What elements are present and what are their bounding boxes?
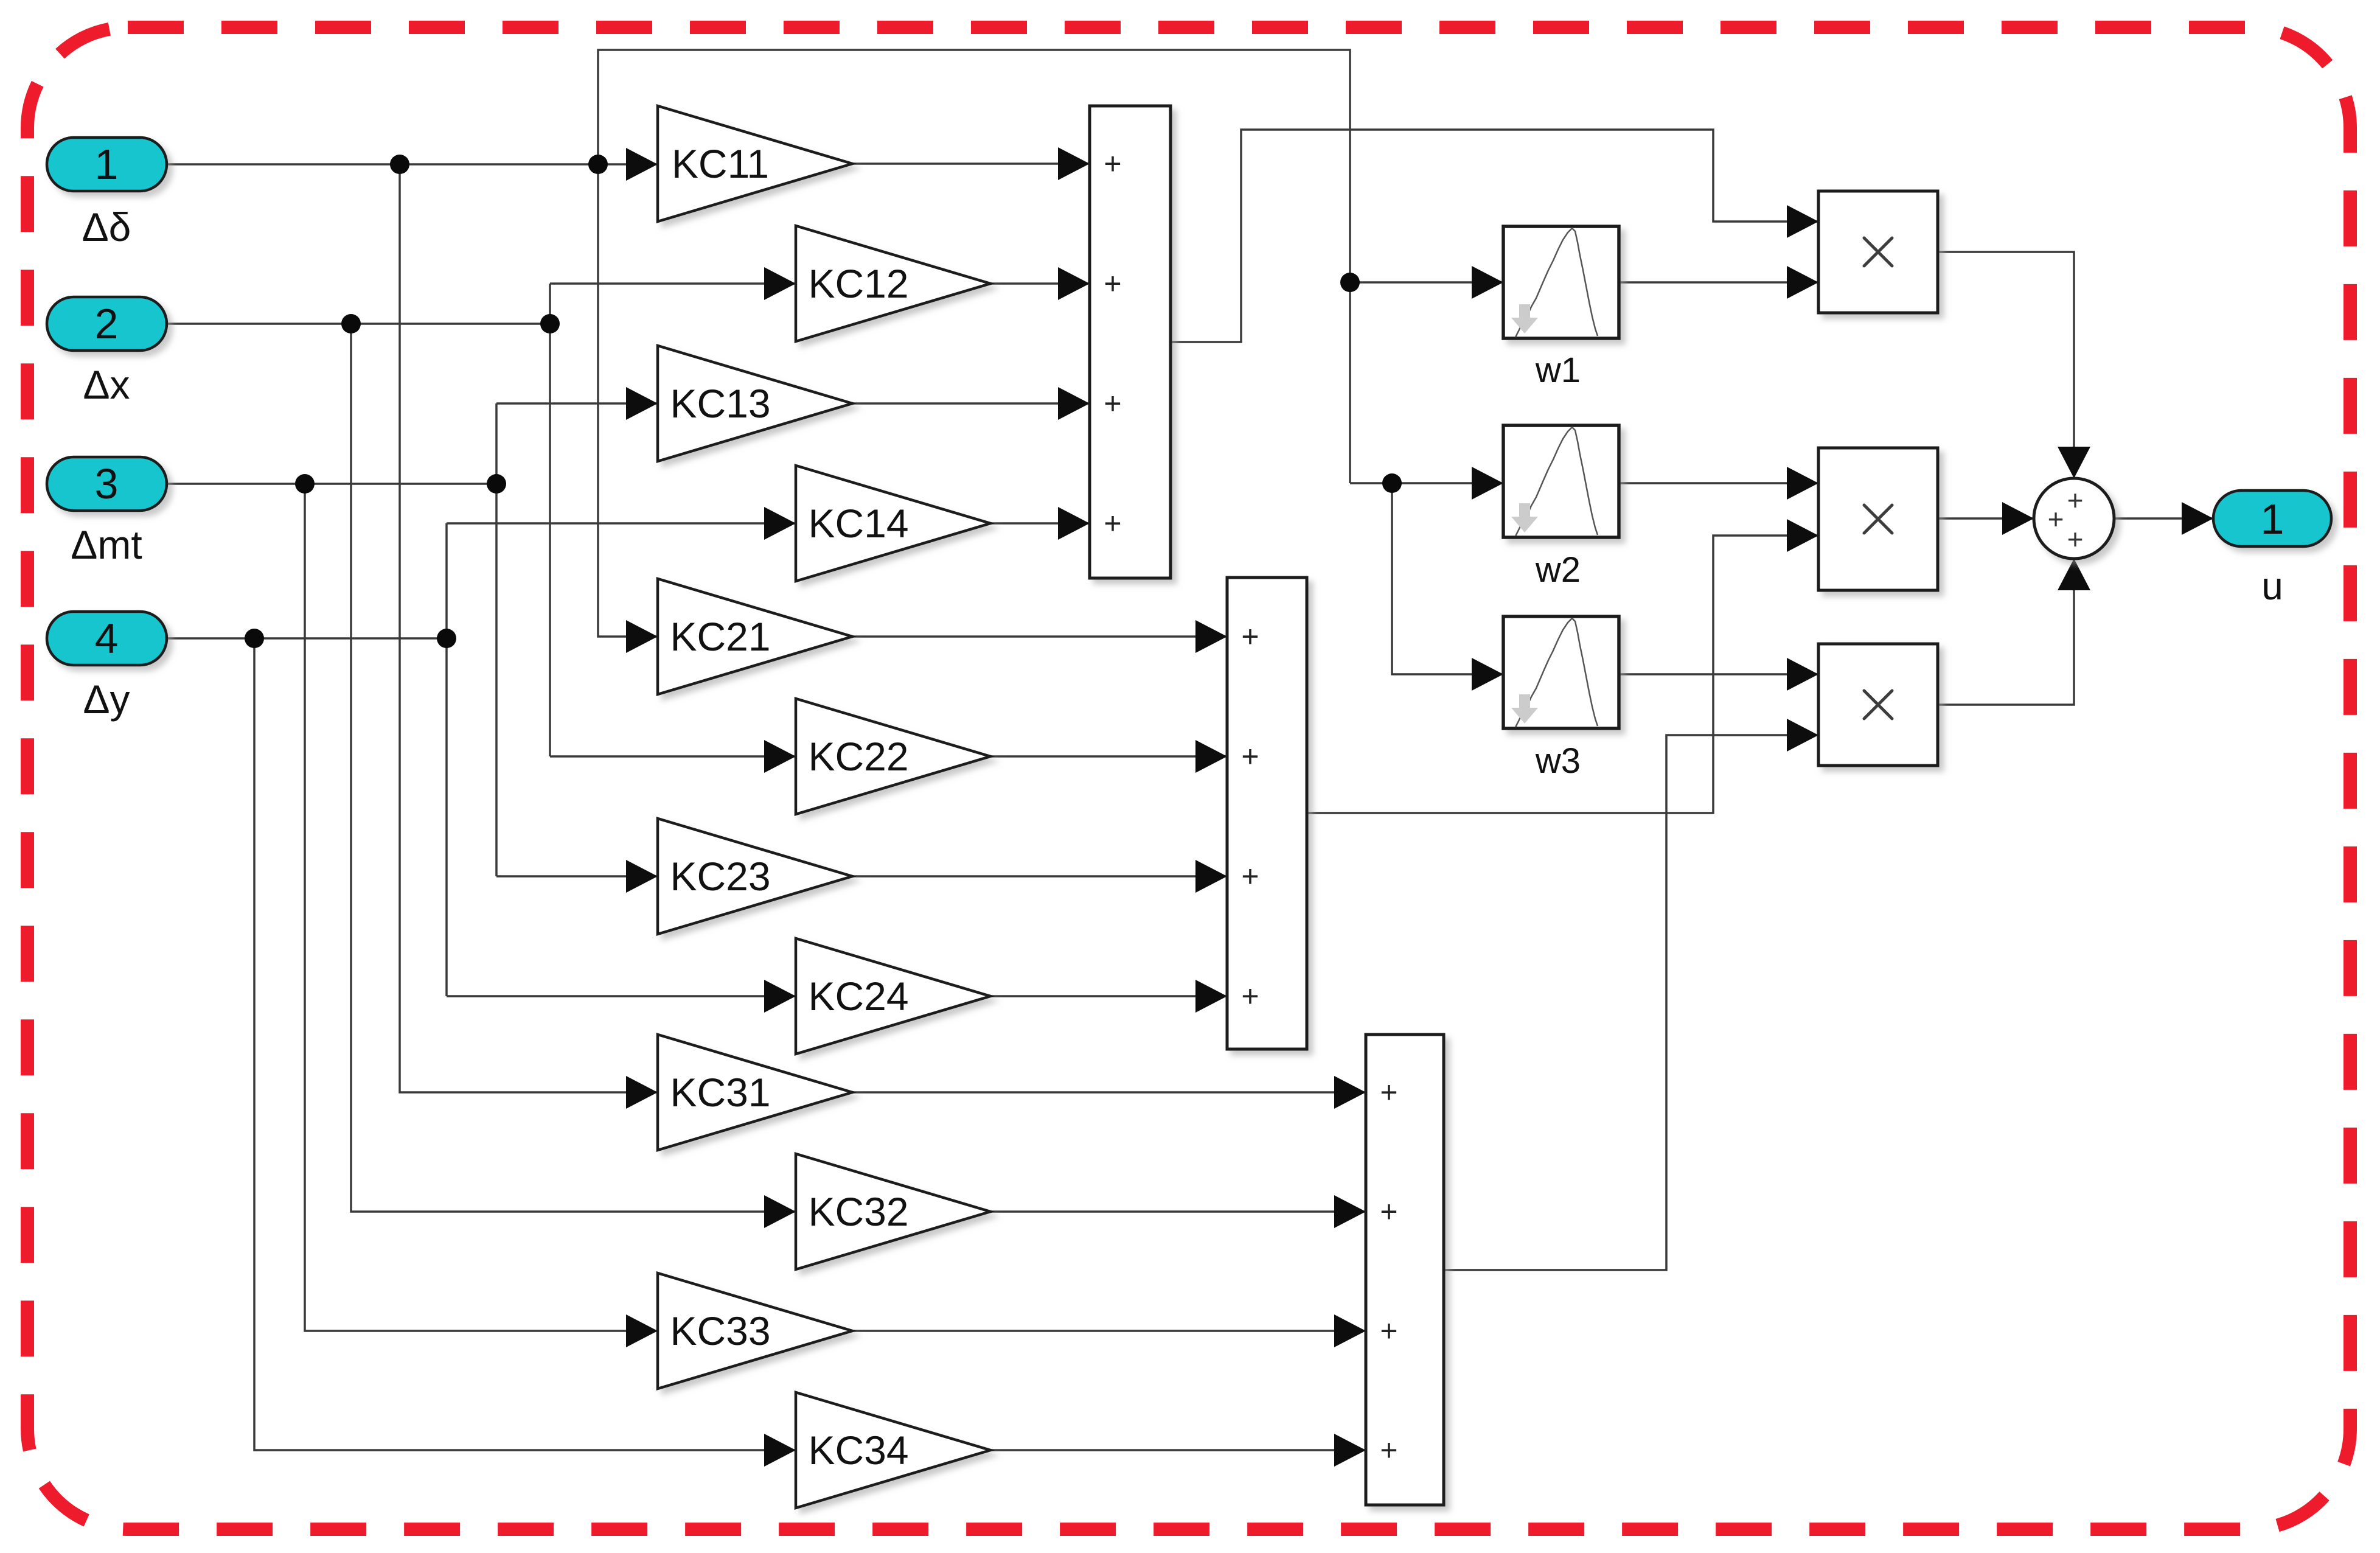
svg-text:+: +	[1104, 147, 1121, 181]
svg-text:KC14: KC14	[808, 501, 908, 546]
svg-text:1: 1	[95, 141, 119, 188]
svg-text:Δy: Δy	[83, 677, 130, 722]
svg-text:KC33: KC33	[670, 1308, 770, 1353]
svg-text:w3: w3	[1535, 741, 1581, 781]
svg-text:KC32: KC32	[808, 1189, 908, 1234]
svg-text:KC24: KC24	[808, 974, 908, 1019]
svg-text:+: +	[1104, 267, 1121, 301]
svg-text:+: +	[1380, 1195, 1397, 1229]
svg-text:KC13: KC13	[670, 381, 770, 426]
svg-text:KC11: KC11	[672, 141, 769, 186]
svg-text:3: 3	[95, 460, 119, 508]
svg-text:+: +	[1241, 739, 1259, 773]
svg-text:w2: w2	[1535, 550, 1581, 590]
svg-text:Δδ: Δδ	[82, 204, 131, 250]
svg-text:+: +	[1104, 386, 1121, 421]
svg-text:+: +	[1241, 979, 1259, 1013]
svg-text:+: +	[1380, 1314, 1397, 1348]
svg-text:KC21: KC21	[670, 614, 770, 659]
svg-text:w1: w1	[1535, 351, 1581, 390]
svg-text:KC22: KC22	[808, 734, 908, 779]
svg-text:+: +	[1104, 506, 1121, 540]
svg-text:+: +	[1241, 859, 1259, 893]
svg-text:+: +	[1380, 1433, 1397, 1467]
svg-text:u: u	[2261, 564, 2283, 608]
svg-text:+: +	[1380, 1075, 1397, 1109]
svg-text:KC23: KC23	[670, 854, 770, 899]
svg-text:Δx: Δx	[83, 362, 130, 407]
svg-text:4: 4	[95, 615, 119, 662]
svg-text:KC34: KC34	[808, 1428, 908, 1473]
svg-text:+: +	[2048, 503, 2064, 535]
svg-text:+: +	[2067, 484, 2084, 516]
svg-text:1: 1	[2261, 495, 2284, 543]
svg-text:+: +	[2067, 523, 2084, 555]
svg-text:KC12: KC12	[808, 261, 908, 306]
svg-text:Δmt: Δmt	[71, 522, 142, 567]
svg-text:2: 2	[95, 300, 119, 347]
svg-text:+: +	[1241, 619, 1259, 654]
svg-text:KC31: KC31	[670, 1070, 770, 1115]
